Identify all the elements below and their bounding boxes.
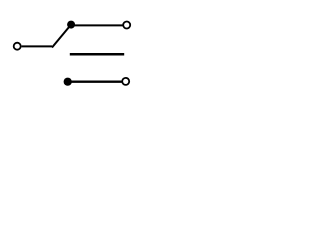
- contact bar (middle throw): [70, 53, 124, 56]
- terminal T3 (bottom right): [122, 78, 129, 85]
- contact dot (top throw): [67, 21, 75, 29]
- terminal T2 (top right): [123, 22, 130, 29]
- switch lever: [52, 26, 70, 48]
- wire: [68, 81, 122, 83]
- wire: [71, 24, 123, 26]
- contact dot (bottom): [64, 78, 72, 86]
- terminal T1 (common, left): [14, 43, 21, 50]
- wire: [22, 45, 52, 47]
